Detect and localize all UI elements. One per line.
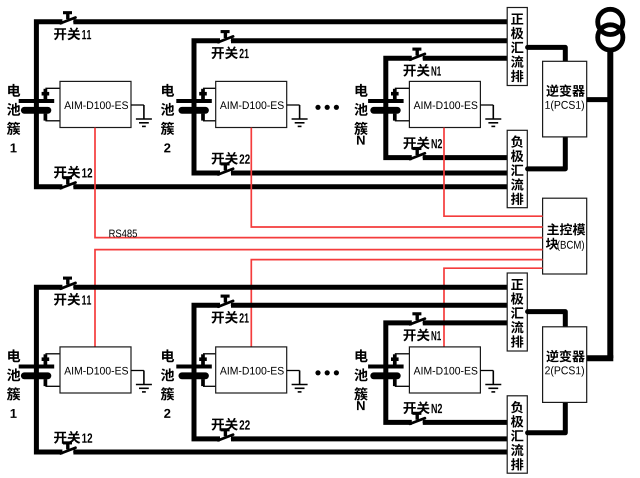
module AIM-D100-ES (cluster 1 top): [60, 81, 131, 127]
battery cluster N (top): [368, 88, 410, 121]
switch 开关22: [218, 164, 236, 175]
busbar 负极汇流排 (bottom): [507, 396, 527, 473]
switch 开关12: [61, 443, 79, 454]
module AIM-D100-ES (cluster 2 bottom): [216, 347, 287, 393]
wire: RS485 BCM to module N (bottom): [444, 268, 543, 347]
battery cluster 2 (bottom): [176, 354, 218, 387]
battery cluster N (bottom): [368, 354, 410, 387]
label 开关21: [212, 46, 249, 59]
wire: inverter 1 to transformer bus: [587, 97, 611, 102]
switch 开关12: [61, 178, 79, 189]
module AIM-D100-ES (cluster 1 bottom): [60, 347, 131, 393]
wire: positive busbar to inverter 1: [528, 47, 566, 62]
label 电池簇1: [7, 349, 20, 418]
wire: positive busbar to inverter 2: [528, 312, 566, 328]
busbar 负极汇流排 (top): [507, 130, 527, 207]
wire: RS485 BCM to module 1 (bottom): [95, 250, 543, 347]
wire: cluster N top bottom line to negative busbar: [423, 155, 508, 160]
label 开关22: [212, 152, 250, 165]
wire: module 1 top to ground: [131, 104, 144, 106]
wire: cluster 2 top top line to positive busbar: [231, 38, 508, 43]
wire: cluster 2 bottom vertical bus with top/bottom branches: [194, 305, 220, 439]
switch 开关N1: [410, 314, 428, 325]
wire: cluster N top top line to positive busbar: [423, 56, 508, 61]
wire: cluster 2 top bottom line to negative busbar: [231, 171, 508, 176]
label 电池簇N: [354, 84, 367, 145]
wire: cluster N top vertical bus with top/bottom branches: [386, 58, 412, 157]
label 开关11: [54, 293, 91, 306]
wire: inverter 1 to negative busbar: [528, 136, 566, 169]
label 开关22: [212, 418, 250, 431]
label 开关N1: [403, 64, 441, 77]
controller 主控模块(BCM): [543, 198, 587, 274]
wire: cluster 1 bottom bottom line to negative busbar: [73, 450, 507, 455]
busbar 正极汇流排 (top): [507, 8, 527, 86]
battery cluster 1 (top): [19, 88, 61, 121]
inverter 逆变器1(PCS1): [543, 61, 587, 137]
ground (cluster 2 top): [292, 105, 308, 126]
label 开关N2: [403, 137, 442, 150]
wire: cluster 1 bottom vertical bus with top/bottom branches: [36, 287, 62, 452]
ground (cluster N bottom): [485, 371, 501, 392]
wire: cluster 2 top vertical bus with top/bottom branches: [194, 41, 220, 173]
label 开关11: [54, 27, 91, 40]
wire: module N top to ground: [480, 104, 493, 106]
wire: cluster 1 top top line to positive busbar: [73, 19, 507, 24]
wire: RS485 module 1 (top) to BCM: [95, 128, 543, 238]
ground (cluster N top): [485, 105, 501, 126]
wire: transformer vertical bus: [607, 48, 613, 358]
ground (cluster 1 top): [136, 105, 152, 126]
wire: cluster 2 bottom top line to positive busbar: [231, 303, 508, 308]
switch 开关N2: [410, 413, 428, 424]
wire: cluster N bottom vertical bus with top/bottom branches: [386, 323, 412, 423]
switch 开关21: [218, 32, 236, 43]
switch 开关N2: [410, 149, 428, 160]
switch 开关N1: [410, 49, 428, 60]
wire: RS485 module 2 (top) to BCM: [251, 128, 542, 227]
inverter 逆变器2(PCS1): [543, 327, 587, 403]
switch 开关22: [218, 430, 236, 441]
switch 开关11: [61, 13, 79, 24]
label 电池簇N: [354, 349, 367, 410]
wire: cluster N bottom bottom line to negative busbar: [423, 420, 508, 425]
wire: RS485 module N (top) to BCM: [444, 128, 543, 217]
label 电池簇1: [7, 84, 20, 153]
wire: module N bottom to ground: [480, 370, 493, 372]
ground (cluster 2 bottom): [292, 371, 308, 392]
wire: module 2 top to ground: [287, 104, 300, 106]
wire: cluster 1 bottom top line to positive busbar: [73, 285, 507, 290]
node: ellipsis dots (more clusters): [315, 105, 339, 110]
module AIM-D100-ES (cluster N bottom): [409, 347, 480, 393]
module AIM-D100-ES (cluster 2 top): [216, 81, 287, 127]
label 开关12: [54, 166, 92, 179]
module AIM-D100-ES (cluster N top): [409, 81, 480, 127]
wire: cluster 1 top vertical bus with top/bottom branches: [36, 22, 62, 187]
node: ellipsis dots (more clusters): [315, 370, 339, 375]
label 开关N1: [403, 329, 441, 342]
busbar 正极汇流排 (bottom): [507, 273, 527, 351]
label 电池簇2: [161, 349, 174, 418]
wire: inverter 2 to negative busbar: [528, 401, 566, 432]
transformer (grid connection): [598, 9, 623, 50]
label 开关N2: [403, 401, 442, 414]
ground (cluster 1 bottom): [136, 371, 152, 392]
wire: module 1 bottom to ground: [131, 370, 144, 372]
wire: cluster 2 bottom bottom line to negative busbar: [231, 436, 508, 441]
wire: RS485 BCM to module 2 (bottom): [251, 260, 542, 347]
label RS485: [109, 230, 137, 238]
wire: cluster 1 top bottom line to negative busbar: [73, 184, 507, 189]
label 电池簇2: [161, 84, 174, 153]
battery cluster 2 (top): [176, 88, 218, 121]
wire: inverter 2 to transformer bus: [587, 355, 614, 361]
battery cluster 1 (bottom): [19, 354, 61, 387]
label 开关12: [54, 431, 92, 444]
wire: cluster N bottom top line to positive busbar: [423, 320, 508, 325]
switch 开关21: [218, 296, 236, 307]
label 开关21: [212, 311, 249, 324]
wire: module 2 bottom to ground: [287, 370, 300, 372]
switch 开关11: [61, 278, 79, 289]
